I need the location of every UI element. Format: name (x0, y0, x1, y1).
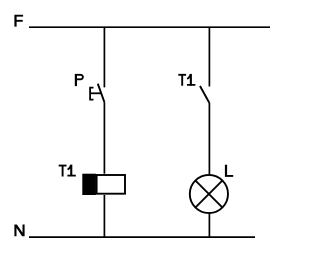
lamp L (indicator lamp: circle with X) (190, 175, 228, 213)
node F (phase rail label) (14, 15, 23, 27)
label L (225, 165, 233, 177)
pushbutton P (normally-open push switch) (90, 84, 104, 103)
contact T1 (normally-open relay contact) (200, 86, 209, 103)
label T1 (coil) (59, 165, 76, 177)
node N (neutral rail label) (14, 225, 24, 237)
label T1 (contact) (178, 74, 195, 86)
relay coil T1 (rectangle, left part filled) (82, 174, 125, 195)
wire: contact T1 to lamp L (208, 103, 210, 175)
wire: F rail to contact T1 upper terminal (208, 27, 210, 86)
label P (75, 74, 84, 86)
wire: pushbutton P to relay coil T1 (103, 102, 105, 174)
wire: lamp L to N rail (208, 213, 210, 237)
wire: N supply rail (bottom horizontal) (29, 236, 255, 238)
wire: F supply rail (top horizontal) (29, 26, 270, 28)
wire: relay coil T1 to N rail (103, 195, 105, 237)
wire: F rail to pushbutton P upper terminal (103, 27, 105, 87)
